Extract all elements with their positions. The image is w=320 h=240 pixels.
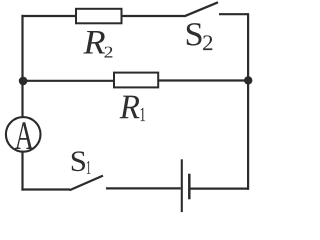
wire middle-right segment (R1 to node) bbox=[158, 79, 248, 81]
resistor R1 bbox=[114, 73, 158, 88]
wire battery to right vertical bbox=[189, 188, 248, 190]
label S2 bbox=[187, 23, 213, 50]
wire top-left segment bbox=[21, 15, 76, 17]
node junction right bbox=[244, 76, 252, 84]
ammeter A bbox=[6, 117, 41, 152]
wire left vertical (ammeter to bottom corner) bbox=[21, 152, 23, 191]
node junction left bbox=[19, 77, 28, 86]
wire right vertical bbox=[247, 13, 249, 190]
battery negative plate (short) bbox=[188, 174, 191, 200]
switch S1 blade bbox=[70, 176, 104, 191]
label R2 bbox=[83, 31, 112, 58]
resistor R2 bbox=[76, 9, 122, 23]
label S1 bbox=[72, 151, 91, 174]
switch S1 right contact wire to battery bbox=[106, 187, 181, 189]
wire middle-left segment (node to R1) bbox=[23, 80, 115, 82]
battery positive plate (long) bbox=[181, 159, 183, 212]
wire bottom-left segment bbox=[21, 188, 70, 190]
wire left vertical (top corner to ammeter) bbox=[21, 15, 23, 118]
switch S2 right contact bbox=[219, 13, 248, 15]
label R1 bbox=[120, 96, 146, 121]
wire R2 to S2 bbox=[122, 15, 185, 17]
switch S2 blade bbox=[184, 2, 218, 16]
